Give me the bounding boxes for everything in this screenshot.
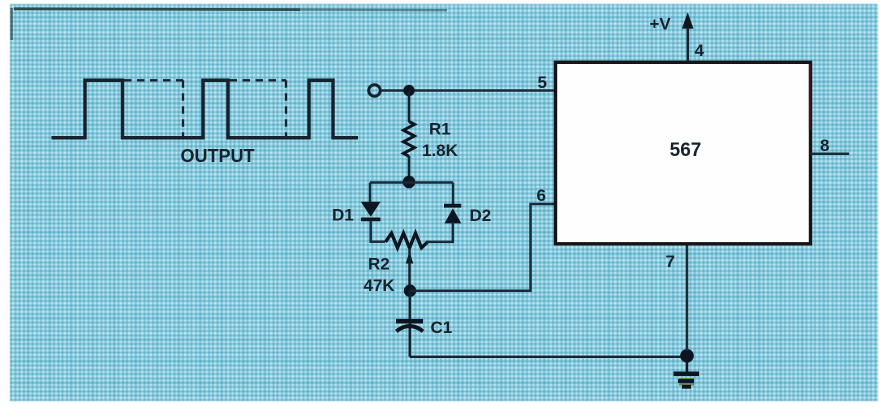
svg-text:1.8K: 1.8K — [422, 141, 459, 160]
wire node C to pin 6 riser — [410, 204, 556, 291]
wire R1 to node B — [408, 156, 411, 180]
svg-text:C1: C1 — [431, 318, 453, 337]
wire node C down through C1 — [408, 291, 411, 357]
wire loop bottom left — [370, 240, 386, 243]
svg-text:R2: R2 — [368, 255, 390, 274]
svg-text:D1: D1 — [332, 206, 354, 225]
diode D1 — [361, 202, 381, 217]
svg-text:5: 5 — [538, 73, 547, 92]
svg-text:6: 6 — [537, 186, 546, 205]
node A (input / R1) — [403, 85, 414, 96]
wire D2 to loop bottom — [452, 223, 455, 243]
node B (R1 / diode loop) — [403, 176, 416, 189]
op IC 567 box U1 — [556, 62, 811, 244]
svg-text:OUTPUT: OUTPUT — [181, 146, 255, 166]
svg-text:D2: D2 — [470, 206, 492, 225]
wire D1 to loop bottom — [369, 221, 372, 243]
node C (wiper / C1 / pin6) — [404, 285, 416, 297]
wire diode loop top — [370, 181, 453, 184]
pin 4 stem and +V arrow — [687, 27, 690, 62]
wire loop bottom right — [426, 241, 454, 244]
svg-text:R1: R1 — [429, 120, 451, 139]
R2 wiper arrow — [406, 252, 414, 264]
svg-text:47K: 47K — [364, 276, 396, 295]
svg-text:567: 567 — [670, 140, 702, 161]
waveform solid trace — [52, 80, 359, 138]
wire junction down to R1 — [408, 91, 411, 123]
wire right branch down — [452, 183, 455, 206]
svg-text:+V: +V — [650, 15, 672, 34]
wire pin 7 down — [686, 244, 689, 351]
input terminal (open circle) — [369, 85, 381, 97]
waveform dashed extension 1 — [124, 80, 183, 136]
node D (ground junction) — [680, 349, 694, 363]
svg-text:7: 7 — [666, 252, 675, 271]
potentiometer R2 — [386, 233, 428, 248]
wire C1 to ground node — [410, 356, 687, 358]
capacitor C1 — [396, 319, 423, 324]
svg-text:8: 8 — [820, 136, 829, 155]
wire input to pin 5 — [381, 89, 555, 92]
pin 8 wire — [811, 153, 850, 156]
ground — [686, 356, 689, 372]
wire left branch down — [369, 183, 372, 204]
diode D2 — [444, 204, 461, 208]
svg-text:4: 4 — [695, 41, 705, 60]
resistor R1 — [404, 122, 415, 157]
waveform dashed extension 2 — [230, 80, 287, 136]
